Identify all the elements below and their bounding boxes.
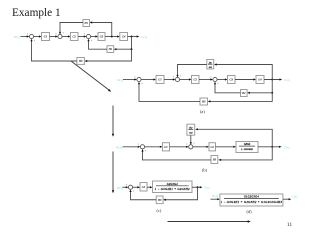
wire G1 to sum2 xyxy=(50,36,57,38)
wire bottom feedback b xyxy=(220,147,272,160)
svg-text:Example 1: Example 1 xyxy=(12,7,61,19)
block G3a xyxy=(228,76,236,84)
block G1b xyxy=(163,143,170,151)
annotation vertical arrow 2 xyxy=(112,152,114,192)
svg-text:G1: G1 xyxy=(44,36,48,39)
wire G3 to G4 with pickoff xyxy=(105,36,118,38)
wire G2 to sum3 xyxy=(78,36,85,38)
svg-text:R(s): R(s) xyxy=(212,194,218,198)
wire H3a to sum1a xyxy=(139,83,200,101)
svg-text:R(s): R(s) xyxy=(14,35,20,39)
wire inner feedback from P2 down to H2 xyxy=(115,37,131,50)
svg-text:H3: H3 xyxy=(157,199,162,202)
svg-text:G1: G1 xyxy=(158,79,162,82)
sign marks at summing junctions xyxy=(27,32,218,191)
summing junction S2 xyxy=(58,34,62,38)
svg-text:G1: G1 xyxy=(164,146,168,149)
block H3a xyxy=(200,98,208,105)
wire H2a to sum3a xyxy=(215,83,241,93)
wire input to sum1 xyxy=(21,36,29,38)
wire fraction a to sum2a xyxy=(178,65,207,77)
wire top feedback a xyxy=(215,65,272,80)
svg-text:R(s): R(s) xyxy=(117,78,123,82)
svg-text:11: 11 xyxy=(287,222,293,228)
block G4a xyxy=(256,76,264,84)
summing junction S1b xyxy=(140,145,144,149)
svg-text:G3: G3 xyxy=(230,79,234,82)
svg-text:C(s): C(s) xyxy=(292,195,298,199)
summing junction S1c xyxy=(128,185,132,189)
wire sum3a to G3a xyxy=(217,79,226,81)
svg-text:C(s): C(s) xyxy=(204,186,210,190)
wire sum2b to G2b xyxy=(193,146,208,148)
wire sum3 to G3 xyxy=(91,36,97,38)
svg-text:H3: H3 xyxy=(212,159,217,162)
svg-text:1 − G3G4H1 + G2G3H2: 1 − G3G4H1 + G2G3H2 xyxy=(155,187,190,191)
wire H1 to sum2 xyxy=(60,23,83,34)
wire mid feedback a xyxy=(249,80,273,93)
wire sum1a to G1a xyxy=(141,79,155,81)
wire top feedback b xyxy=(197,129,273,147)
svg-text:C(s): C(s) xyxy=(141,35,147,39)
wire G4a to output xyxy=(264,79,281,81)
svg-text:H2: H2 xyxy=(108,48,113,51)
svg-text:G3: G3 xyxy=(100,36,104,39)
summing junction S1a xyxy=(137,77,141,81)
wire G1c to block c xyxy=(147,186,151,188)
block G4 xyxy=(120,33,128,41)
block H1 top xyxy=(83,20,90,27)
block G3G4/(1-G3G4H1) b xyxy=(236,142,258,153)
node pickoff P1 xyxy=(111,36,113,38)
wire top feedback from P1 up and left to H1 xyxy=(91,23,112,37)
block G1G2G3G4/(1-G3G4H1+G2G3H2+G1G2G3G4H3) d xyxy=(220,194,283,206)
summing junction S1 xyxy=(29,34,33,38)
svg-text:G1G2G3G4: G1G2G3G4 xyxy=(244,196,259,199)
svg-text:H3: H3 xyxy=(201,101,206,104)
block H3c xyxy=(156,196,163,204)
block G2a xyxy=(192,76,200,84)
node pickoff Pb xyxy=(271,146,273,148)
wire sum1c to G1c xyxy=(133,186,139,188)
svg-text:G2: G2 xyxy=(194,79,198,82)
block G3 xyxy=(98,33,105,41)
svg-text:G2G3G4: G2G3G4 xyxy=(167,183,178,186)
block H3b xyxy=(211,156,218,164)
block G1 xyxy=(42,33,50,41)
svg-text:R(s): R(s) xyxy=(117,186,123,190)
wire sum2 to G2 xyxy=(62,36,69,38)
svg-text:G2: G2 xyxy=(73,36,77,39)
svg-text:1 − G3G4H1 + G2G3H2 + G1G2G3G4: 1 − G3G4H1 + G2G3H2 + G1G2G3G4H3 xyxy=(221,200,283,204)
wire G4 to output xyxy=(128,36,138,38)
block G2 xyxy=(71,33,79,41)
wire input to sum1a xyxy=(123,79,136,81)
svg-text:H3: H3 xyxy=(78,60,83,63)
summing junction S3a xyxy=(213,77,217,81)
wire G1a to sum2a xyxy=(164,79,174,81)
node pickoff Pc xyxy=(197,186,199,188)
svg-text:R(s): R(s) xyxy=(116,145,122,149)
node junction Pa2 xyxy=(271,92,273,94)
wire input to sum1b xyxy=(123,146,140,148)
svg-text:G2: G2 xyxy=(211,146,215,149)
block G1c xyxy=(140,183,147,192)
wire G3a to G4a xyxy=(235,79,255,81)
svg-text:G1: G1 xyxy=(142,186,146,189)
wire H3b to sum1b xyxy=(143,151,212,160)
wire H2 to sum3 xyxy=(89,40,108,49)
svg-text:1−G3G4H1: 1−G3G4H1 xyxy=(241,148,253,151)
annotation horizontal arrow xyxy=(168,221,249,223)
block G2b xyxy=(209,143,216,151)
wire sum1 to G1 xyxy=(34,36,41,38)
summing junction S2b xyxy=(189,145,193,149)
svg-text:H1: H1 xyxy=(84,22,89,25)
wire G2a to sum3a xyxy=(199,79,212,81)
wire block c to output xyxy=(192,186,201,188)
annotation vertical arrow 1 xyxy=(112,106,114,135)
annotation diagonal arrow to diagram (a) xyxy=(71,61,109,90)
wire fraction b to sum2b xyxy=(190,135,192,143)
node pickoff Pa xyxy=(271,79,273,81)
wire G2b to block b xyxy=(216,146,235,148)
block H3 xyxy=(77,58,85,65)
svg-text:G4: G4 xyxy=(122,36,126,39)
wire H3 to sum1 xyxy=(32,40,77,61)
block H2/G4 fraction b xyxy=(187,124,195,135)
summing junction S2a xyxy=(175,77,179,81)
wire G1b to sum2b xyxy=(170,146,188,148)
wire H3c to sum1c xyxy=(131,191,157,200)
block G2G3G4/(1-G3G4H1+G2G3H2) c xyxy=(153,181,193,193)
svg-text:C(s): C(s) xyxy=(284,78,290,82)
block H1/G4 fraction a xyxy=(207,60,214,69)
svg-text:(b): (b) xyxy=(202,168,208,173)
wire block b to output xyxy=(258,146,280,148)
svg-text:(d): (d) xyxy=(247,209,253,214)
node pickoff P2 xyxy=(131,36,133,38)
node junction P3 xyxy=(131,48,133,50)
svg-text:(a): (a) xyxy=(200,109,205,114)
block H2 xyxy=(107,46,114,53)
summing junction S3 xyxy=(86,34,90,38)
wire block d to output xyxy=(283,198,290,200)
wire input to block d xyxy=(211,198,219,200)
svg-text:H2: H2 xyxy=(241,92,246,95)
svg-text:C(s): C(s) xyxy=(284,145,290,149)
svg-text:(c): (c) xyxy=(157,208,162,213)
wire feedback c xyxy=(165,187,198,200)
wire input to sum1c xyxy=(123,186,128,188)
svg-text:G4: G4 xyxy=(258,79,262,82)
wire sum2a to G2a xyxy=(180,79,191,81)
block G1a xyxy=(156,76,164,84)
wire outer feedback from P3 down to H3 xyxy=(86,49,132,61)
wire sum1b to G1b xyxy=(145,146,162,148)
block H2a xyxy=(241,90,248,97)
wire outer feedback a xyxy=(209,93,272,102)
